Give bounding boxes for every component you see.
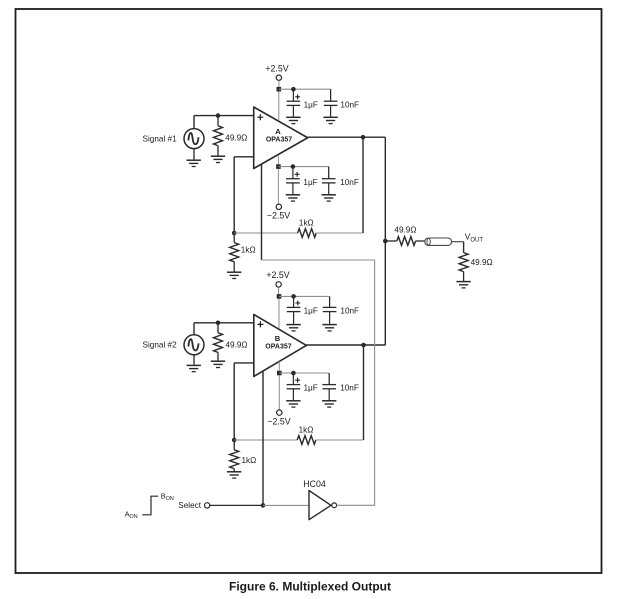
waveform select step — [125, 492, 174, 521]
source VS1 Signal #1 — [143, 116, 205, 167]
wire A V- rail — [278, 167, 328, 179]
node A feedback — [232, 231, 237, 236]
resistor R5 1k&#937; to gnd — [227, 440, 256, 478]
resistor R8 49.9&#937; load — [456, 253, 492, 288]
node B noninverting input — [216, 321, 221, 326]
wire inverter output to A enable — [262, 260, 375, 505]
capacitor C6 10nF B V+ — [322, 296, 359, 331]
svg-text:1μF: 1μF — [304, 307, 318, 316]
node A V- square junction — [276, 155, 281, 204]
wire A inverting input — [234, 157, 254, 233]
node select — [261, 503, 266, 508]
svg-text:−2.5V: −2.5V — [267, 416, 290, 426]
wire B feedback left — [234, 439, 297, 441]
svg-text:1kΩ: 1kΩ — [299, 426, 314, 435]
svg-text:1kΩ: 1kΩ — [242, 456, 257, 465]
node B V- rail dot — [291, 371, 296, 376]
svg-text:10nF: 10nF — [340, 178, 359, 187]
svg-text:49.9Ω: 49.9Ω — [471, 258, 493, 267]
node B feedback — [232, 438, 237, 443]
resistor R3 1k&#937; feedback A — [298, 218, 317, 237]
svg-text:10nF: 10nF — [340, 100, 359, 109]
node VOUT — [452, 232, 484, 253]
wire A output dropline — [362, 137, 364, 233]
svg-text:OPA357: OPA357 — [266, 137, 292, 144]
svg-text:−2.5V: −2.5V — [267, 211, 290, 221]
svg-text:Figure 6. Multiplexed Output: Figure 6. Multiplexed Output — [229, 580, 391, 594]
wire select to inverter — [263, 504, 309, 506]
cable W1 coax — [425, 238, 452, 245]
svg-text:B: B — [275, 334, 281, 343]
svg-text:49.9Ω: 49.9Ω — [226, 341, 248, 350]
wire node to +in B — [218, 322, 254, 324]
svg-text:10nF: 10nF — [340, 384, 359, 393]
wire B V- rail — [279, 373, 329, 385]
op-amp U1A OPA357 — [254, 107, 308, 169]
svg-text:Select: Select — [178, 501, 201, 510]
capacitor C2 10nF A V+ — [323, 89, 359, 123]
resistor R2 1k&#937; to gnd — [227, 233, 256, 279]
svg-text:1kΩ: 1kΩ — [241, 245, 256, 254]
svg-text:+2.5V: +2.5V — [266, 270, 289, 280]
node B V+ square junction — [277, 294, 282, 328]
node B V- square junction — [277, 361, 282, 409]
wire select — [210, 504, 263, 506]
node A noninverting input — [216, 113, 221, 118]
capacitor C3 1&#956;F A V- — [286, 167, 318, 202]
wire B output dropline — [363, 345, 365, 440]
inverter U2 HC04 — [303, 479, 336, 520]
svg-text:1μF: 1μF — [303, 178, 317, 187]
svg-text:+2.5V: +2.5V — [265, 64, 288, 74]
svg-text:Signal #1: Signal #1 — [143, 135, 178, 144]
resistor R4 49.9&#937; — [211, 323, 248, 368]
svg-text:A: A — [275, 127, 281, 136]
wire node to +in A — [218, 115, 254, 117]
terminal -2.5V A — [267, 204, 290, 220]
wire B enable — [262, 371, 264, 506]
caption Figure 6 — [229, 580, 391, 594]
capacitor C7 1&#956;F B V- — [286, 373, 318, 407]
node A V+ rail dot — [291, 87, 296, 92]
capacitor C1 1&#956;F A V+ — [286, 89, 318, 123]
svg-text:1μF: 1μF — [304, 100, 318, 109]
node A V- rail dot — [291, 164, 296, 169]
capacitor C5 1&#956;F B V+ — [286, 296, 317, 331]
terminal -2.5V B — [267, 410, 290, 426]
wire A V+ rail — [279, 89, 331, 101]
resistor R7 49.9&#937; series — [385, 225, 425, 245]
node output bus tap — [383, 239, 388, 244]
node B output tap — [361, 343, 366, 348]
wire B feedback right — [316, 439, 364, 441]
svg-text:1μF: 1μF — [304, 384, 318, 393]
resistor R6 1k&#937; feedback B — [297, 426, 316, 445]
wire B V+ rail — [279, 296, 330, 307]
svg-text:Signal #2: Signal #2 — [143, 341, 178, 350]
terminal Select — [178, 501, 210, 510]
op-amp U1B OPA357 — [254, 315, 307, 377]
source VS2 Signal #2 — [143, 323, 205, 372]
svg-text:OPA357: OPA357 — [265, 344, 291, 351]
svg-text:HC04: HC04 — [303, 479, 326, 489]
node A V+ square junction — [277, 87, 282, 121]
svg-text:1kΩ: 1kΩ — [299, 218, 314, 227]
resistor R1 49.9&#937; — [211, 116, 248, 163]
node A output tap — [361, 135, 366, 140]
wire sig1 to node — [194, 115, 218, 117]
wire A enable — [261, 164, 263, 260]
svg-text:10nF: 10nF — [340, 307, 359, 316]
capacitor C8 10nF B V- — [322, 373, 359, 407]
wire A output — [308, 136, 386, 138]
node B V+ rail dot — [291, 294, 296, 299]
wire A feedback right — [316, 232, 363, 234]
wire B inverting input — [234, 363, 254, 440]
svg-text:49.9Ω: 49.9Ω — [225, 134, 247, 143]
capacitor C4 10nF A V- — [322, 167, 359, 202]
terminal +2.5V A — [265, 64, 288, 87]
terminal +2.5V B — [266, 270, 289, 294]
wire A feedback left — [234, 232, 297, 234]
wire B output — [306, 344, 385, 346]
wire sig2 to node — [194, 322, 218, 324]
wire output bus — [384, 137, 386, 345]
svg-text:49.9Ω: 49.9Ω — [394, 225, 416, 234]
